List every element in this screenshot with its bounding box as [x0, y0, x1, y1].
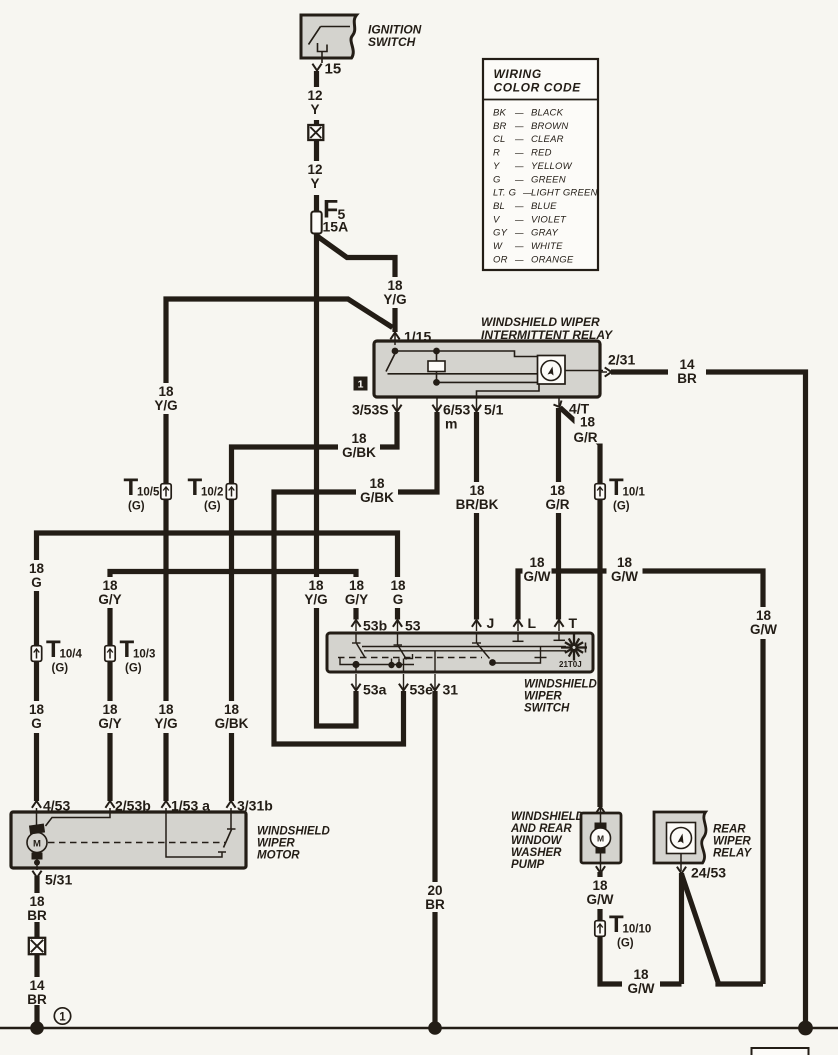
- switch internal T contact: [558, 634, 560, 640]
- wire washer pump to rear wiper relay 24/53 (18 G/W): [600, 872, 682, 984]
- svg-text:ORANGE: ORANGE: [531, 254, 574, 265]
- svg-text:18: 18: [351, 431, 367, 446]
- svg-text:18: 18: [102, 578, 118, 593]
- svg-text:BR: BR: [27, 992, 47, 1007]
- relay internal resistor: [436, 351, 438, 361]
- svg-text:OR: OR: [493, 254, 508, 265]
- wire switch 31 to ground bus (20 BR): [432, 691, 437, 1028]
- label 18 G on 4/53 run upper: [24, 560, 50, 591]
- svg-text:—: —: [514, 121, 524, 131]
- wire relay 6/53m to switch 53e (18 G/BK): [274, 412, 437, 744]
- svg-text:G/BK: G/BK: [342, 445, 376, 460]
- svg-text:10/5: 10/5: [137, 487, 160, 499]
- relay internal bus top: [395, 351, 538, 357]
- svg-text:10/2: 10/2: [201, 487, 223, 499]
- svg-text:T: T: [569, 615, 578, 631]
- svg-text:Y: Y: [310, 176, 319, 191]
- svg-text:AND REAR: AND REAR: [510, 823, 572, 835]
- svg-text:12: 12: [307, 88, 322, 103]
- switch terminal 31: [434, 674, 436, 689]
- label 18 G/BK on 3/53S run: [338, 430, 380, 461]
- label 20 BR on 31 wire: [422, 882, 448, 912]
- svg-text:BL: BL: [493, 201, 505, 212]
- wire ignition switch feed, fuse output vertical 12Y/18YG net: [317, 71, 357, 726]
- svg-text:Y/G: Y/G: [154, 398, 177, 413]
- motor internal 1/53a lead: [166, 808, 222, 857]
- label 12 Y lower: [304, 161, 326, 195]
- svg-text:18: 18: [469, 483, 485, 498]
- svg-text:WHITE: WHITE: [531, 241, 563, 252]
- svg-text:CLEAR: CLEAR: [531, 134, 564, 145]
- wire relay 4/T diagonal branch to T10/1 (18 G/R): [560, 408, 600, 445]
- svg-text:W: W: [493, 241, 503, 252]
- switch internal 53 contact: [397, 634, 399, 645]
- svg-text:4/T: 4/T: [569, 401, 590, 417]
- svg-text:1/15: 1/15: [404, 329, 431, 345]
- relay terminal 6/53 m: [436, 397, 438, 410]
- svg-text:WIPER: WIPER: [257, 838, 295, 850]
- switch internal bus 1: [362, 646, 566, 648]
- svg-text:G/Y: G/Y: [98, 716, 121, 731]
- svg-text:VIOLET: VIOLET: [531, 214, 567, 225]
- motor internal 3/31b contact: [230, 808, 232, 829]
- svg-text:(G): (G): [613, 501, 630, 513]
- motor terminal 2/53b: [105, 801, 114, 808]
- connector T10/2: [226, 484, 236, 500]
- svg-text:18: 18: [592, 878, 608, 893]
- switch washer contact star: [576, 646, 588, 648]
- svg-text:GREEN: GREEN: [531, 174, 566, 185]
- svg-text:Y/G: Y/G: [383, 292, 406, 307]
- svg-text:WINDOW: WINDOW: [511, 835, 563, 847]
- label 12 Y upper: [304, 87, 326, 120]
- relay terminal 4/T: [558, 397, 560, 406]
- rear wiper relay box: [654, 812, 706, 863]
- svg-text:M: M: [597, 834, 604, 844]
- svg-text:10/1: 10/1: [623, 487, 646, 499]
- svg-text:BR/BK: BR/BK: [456, 497, 499, 512]
- svg-text:M: M: [33, 839, 41, 850]
- svg-text:WINDSHIELD: WINDSHIELD: [257, 826, 330, 838]
- switch box windshield wiper switch: [327, 633, 593, 672]
- svg-text:18: 18: [29, 702, 45, 717]
- label 18 G/W right of T10/1: [607, 554, 643, 585]
- switch terminal 53b: [355, 621, 357, 631]
- rear relay terminal 24/53: [677, 867, 686, 874]
- svg-text:—: —: [514, 214, 524, 224]
- connector T10/1: [595, 484, 605, 500]
- svg-text:CL: CL: [493, 134, 506, 145]
- svg-text:WINDSHIELD WIPER: WINDSHIELD WIPER: [481, 315, 600, 329]
- motor terminal 4/53: [32, 801, 41, 808]
- wire T10/1 washer feed vertical to washer pump (18 G/W): [597, 442, 602, 807]
- label 18 G/W near switch L: [523, 554, 552, 585]
- svg-text:COLOR CODE: COLOR CODE: [494, 81, 582, 95]
- svg-text:PUMP: PUMP: [511, 859, 545, 871]
- svg-text:BR: BR: [425, 897, 445, 912]
- label 18 G/Y on 2/53b run upper: [94, 577, 126, 608]
- svg-text:18: 18: [756, 608, 772, 623]
- wire 24/53 diagonal to 18 G/W riser: [682, 874, 764, 984]
- switch internal bus 2: [364, 650, 566, 652]
- switch internal 53a lead: [355, 665, 357, 673]
- motor armature: [29, 824, 45, 835]
- svg-text:10/4: 10/4: [60, 649, 83, 661]
- svg-text:LT. G: LT. G: [493, 188, 516, 199]
- bottom right reference box: [752, 1048, 809, 1055]
- label 18 G on 53 drop: [385, 577, 411, 608]
- svg-text:5/1: 5/1: [484, 402, 504, 418]
- svg-text:18: 18: [102, 702, 118, 717]
- svg-text:G/W: G/W: [524, 569, 551, 584]
- svg-text:BLACK: BLACK: [531, 108, 564, 119]
- svg-text:12: 12: [307, 162, 322, 177]
- label 18 G/R on diagonal: [575, 414, 606, 444]
- svg-text:BK: BK: [493, 108, 507, 119]
- connector T10/5: [161, 484, 171, 500]
- svg-text:18: 18: [580, 414, 596, 429]
- switch internal lower bus right: [493, 647, 541, 664]
- connector T10/3: [105, 646, 115, 662]
- svg-text:REAR: REAR: [713, 824, 746, 836]
- svg-text:14: 14: [29, 978, 45, 993]
- washer pump terminal top: [596, 807, 605, 814]
- svg-text:—: —: [514, 174, 524, 184]
- relay internal 5/1 path: [477, 384, 540, 397]
- svg-text:(G): (G): [52, 663, 69, 675]
- svg-text:—: —: [514, 254, 524, 264]
- connector X in-line upper (12 Y): [308, 125, 323, 140]
- switch internal 53e lead: [403, 659, 405, 673]
- relay node resistor bottom: [433, 379, 440, 386]
- svg-text:53e: 53e: [410, 682, 434, 698]
- svg-text:LIGHT GREEN: LIGHT GREEN: [531, 188, 598, 199]
- svg-text:G/W: G/W: [611, 569, 638, 584]
- relay node resistor top: [433, 348, 440, 355]
- svg-text:2/53b: 2/53b: [115, 798, 151, 814]
- ground node center: [428, 1021, 442, 1035]
- svg-text:18: 18: [529, 555, 545, 570]
- washer pump motor: [600, 808, 602, 824]
- svg-text:2/31: 2/31: [608, 352, 635, 368]
- label 18 G/BK lower: [211, 701, 253, 733]
- svg-text:G: G: [31, 575, 42, 590]
- svg-text:18: 18: [29, 894, 45, 909]
- svg-text:18: 18: [617, 555, 633, 570]
- svg-text:10/10: 10/10: [623, 924, 652, 936]
- terminal 15 arrow: [312, 64, 321, 71]
- motor internal 5/31 lead: [36, 859, 38, 870]
- svg-text:YELLOW: YELLOW: [531, 161, 573, 172]
- ground node right: [798, 1021, 813, 1036]
- wire relay 5/1 to switch J (18 BR/BK): [474, 412, 479, 620]
- label 18 G/BK on 6/53m run: [356, 475, 398, 506]
- svg-text:GRAY: GRAY: [531, 228, 558, 239]
- svg-text:G: G: [31, 716, 42, 731]
- wire 18 Y/G branch to T10/5 and motor 1/53a: [166, 299, 393, 801]
- label 18 G/W bottom run: [622, 966, 660, 999]
- relay box windshield wiper intermittent relay: [374, 341, 600, 397]
- svg-text:WIRING: WIRING: [494, 67, 542, 81]
- svg-text:5/31: 5/31: [45, 872, 72, 888]
- label 18 Y/G lower: [150, 701, 182, 733]
- motor terminal 5/31: [32, 871, 41, 878]
- switch terminal T: [558, 621, 560, 631]
- svg-text:BROWN: BROWN: [531, 121, 568, 132]
- label 18 Y/G at relay 1/15: [379, 277, 411, 308]
- svg-text:18: 18: [349, 578, 365, 593]
- svg-text:WIPER: WIPER: [713, 836, 751, 848]
- switch terminal 53a: [355, 674, 357, 689]
- svg-text:—: —: [514, 228, 524, 238]
- svg-text:4/53: 4/53: [43, 798, 70, 814]
- relay terminal 3/53S: [396, 397, 398, 410]
- svg-text:18: 18: [158, 702, 174, 717]
- switch terminal 53: [397, 621, 399, 631]
- svg-text:18: 18: [224, 702, 240, 717]
- svg-text:18: 18: [550, 483, 566, 498]
- svg-text:J: J: [487, 615, 495, 631]
- label 14 BR on 2/31 wire: [668, 356, 706, 387]
- svg-text:G/R: G/R: [573, 430, 597, 445]
- svg-text:—: —: [514, 201, 524, 211]
- svg-text:WINDSHIELD: WINDSHIELD: [511, 811, 584, 823]
- fuse F5 15A: [311, 212, 321, 234]
- relay internal output lead: [565, 370, 603, 372]
- label 14 BR above ground: [24, 977, 50, 1005]
- svg-text:BLUE: BLUE: [531, 201, 557, 212]
- wire relay 4/T to switch T (18 G/R): [556, 408, 561, 620]
- svg-text:G: G: [393, 592, 404, 607]
- motor box windshield wiper motor: [11, 812, 246, 868]
- wire fuse F5 to relay terminal 1/15 (18 Y/G): [317, 236, 395, 332]
- svg-text:24/53: 24/53: [691, 865, 726, 881]
- svg-text:RED: RED: [531, 148, 552, 159]
- svg-text:Y: Y: [493, 161, 500, 172]
- switch internal 31 lead: [434, 651, 436, 672]
- connector X in-line lower (BR): [29, 938, 45, 954]
- svg-text:1: 1: [358, 379, 364, 391]
- svg-text:—: —: [514, 161, 524, 171]
- relay internal switch arm: [386, 353, 396, 372]
- svg-text:18: 18: [390, 578, 406, 593]
- wire 18 G/W bus from switch L to rear wiper relay branch: [518, 571, 763, 984]
- wire relay 3/53S to motor 3/31b (18 G/BK): [232, 412, 398, 801]
- svg-text:—: —: [514, 148, 524, 158]
- switch internal lower bus left: [340, 658, 414, 665]
- switch internal wiper dashed link: [338, 657, 482, 659]
- relay node 1/15: [392, 348, 399, 355]
- svg-text:53a: 53a: [363, 682, 387, 698]
- svg-text:21T0J: 21T0J: [559, 660, 582, 669]
- motor internal 4/53 lead: [36, 808, 38, 825]
- svg-text:G/Y: G/Y: [98, 592, 121, 607]
- svg-text:BR: BR: [27, 908, 47, 923]
- svg-text:18: 18: [29, 561, 45, 576]
- svg-text:G/Y: G/Y: [345, 592, 368, 607]
- svg-text:20: 20: [427, 883, 442, 898]
- svg-text:WIPER: WIPER: [524, 691, 562, 703]
- svg-text:Y: Y: [310, 102, 319, 117]
- svg-text:SWITCH: SWITCH: [524, 703, 570, 715]
- ignition switch contact: [321, 26, 351, 28]
- svg-text:18: 18: [387, 278, 403, 293]
- svg-text:18: 18: [369, 476, 385, 491]
- svg-text:R: R: [493, 148, 500, 159]
- svg-text:53b: 53b: [363, 618, 387, 634]
- label 18 Y/G on fuse run lower: [300, 577, 332, 608]
- svg-text:(G): (G): [125, 663, 142, 675]
- svg-text:G/W: G/W: [628, 981, 655, 996]
- svg-text:1: 1: [59, 1012, 66, 1024]
- svg-text:G/W: G/W: [750, 622, 777, 637]
- label 18 G/Y lower: [94, 701, 126, 733]
- switch internal 53b contact: [355, 634, 357, 643]
- svg-text:—: —: [514, 134, 524, 144]
- wire motor 5/31 to ground bus (18/14 BR): [34, 876, 39, 1028]
- svg-text:18: 18: [308, 578, 324, 593]
- motor internal park dashed link: [48, 842, 225, 844]
- svg-text:Y/G: Y/G: [154, 716, 177, 731]
- washer pump terminal bottom: [596, 866, 605, 873]
- svg-text:L: L: [528, 615, 537, 631]
- connector T10/4: [31, 646, 41, 662]
- svg-text:18: 18: [158, 384, 174, 399]
- relay terminal 5/1: [476, 397, 478, 410]
- ignition switch box: [301, 15, 357, 58]
- svg-text:MOTOR: MOTOR: [257, 850, 300, 862]
- label 18 G lower: [24, 701, 50, 733]
- label 18 BR/BK on 5/1 run: [453, 482, 501, 513]
- switch terminal 53e: [403, 674, 405, 689]
- switch internal L contact: [517, 634, 519, 641]
- svg-text:G: G: [493, 174, 501, 185]
- svg-text:SWITCH: SWITCH: [368, 35, 416, 49]
- wire motor 2/53b to switch 53b (18 G/Y): [110, 572, 356, 802]
- svg-text:—: —: [514, 241, 524, 251]
- svg-text:14: 14: [679, 357, 695, 372]
- svg-text:10/3: 10/3: [133, 649, 155, 661]
- svg-text:—: —: [514, 108, 524, 118]
- relay internal bus from resistor: [437, 381, 538, 383]
- switch node J arm: [489, 659, 496, 666]
- svg-text:1/53 a: 1/53 a: [171, 798, 210, 814]
- switch node 53a: [352, 661, 359, 668]
- svg-text:WINDSHIELD: WINDSHIELD: [524, 679, 597, 691]
- relay terminal 1/15: [394, 334, 396, 345]
- wire rear wiper relay 24/53 drop: [679, 873, 684, 984]
- svg-text:G/W: G/W: [587, 892, 614, 907]
- ground bus line: [0, 1027, 838, 1029]
- svg-text:(G): (G): [128, 501, 145, 513]
- label 18 Y/G on 1/53a run upper: [150, 383, 182, 414]
- motor terminal 3/31b: [226, 801, 235, 808]
- svg-text:WASHER: WASHER: [511, 847, 562, 859]
- label 18 G/Y on 53b drop: [341, 577, 373, 608]
- switch node 53e pair: [388, 662, 394, 668]
- svg-text:GY: GY: [493, 228, 508, 239]
- svg-text:G/BK: G/BK: [215, 716, 249, 731]
- label 18 BR below motor: [24, 893, 50, 922]
- switch internal J contact: [476, 634, 478, 643]
- wire relay 2/31 to ground bus (14 BR): [611, 372, 806, 1028]
- relay marker 1: [354, 377, 368, 391]
- svg-text:BR: BR: [677, 371, 697, 386]
- ground marker circled 1: [54, 1008, 70, 1024]
- label 18 G/W below pump: [582, 877, 618, 909]
- svg-text:3/31b: 3/31b: [237, 798, 273, 814]
- switch terminal L: [517, 621, 519, 631]
- svg-text:RELAY: RELAY: [713, 848, 752, 860]
- svg-text:Y/G: Y/G: [304, 592, 327, 607]
- svg-text:(G): (G): [204, 501, 221, 513]
- svg-text:18: 18: [633, 967, 649, 982]
- svg-text:G/BK: G/BK: [360, 490, 394, 505]
- label 18 G/W on riser: [746, 607, 782, 639]
- svg-text:m: m: [445, 416, 457, 432]
- svg-text:(G): (G): [617, 938, 634, 950]
- washer pump box: [581, 813, 621, 863]
- connector T10/10: [595, 921, 605, 937]
- svg-text:31: 31: [443, 682, 459, 698]
- svg-text:15: 15: [325, 61, 342, 78]
- svg-text:3/53S: 3/53S: [352, 402, 389, 418]
- relay terminal 2/31: [600, 371, 607, 373]
- rear wiper relay contact: [667, 823, 696, 854]
- wire motor 4/53 to switch 53 (18 G): [37, 533, 398, 801]
- relay internal lower bus: [388, 373, 538, 375]
- switch terminal J: [476, 621, 478, 631]
- wiring color code table: [483, 59, 598, 270]
- svg-text:53: 53: [405, 618, 421, 634]
- svg-text:G/R: G/R: [545, 497, 569, 512]
- relay internal motor box: [538, 356, 566, 385]
- svg-text:BR: BR: [493, 121, 507, 132]
- motor internal 2/53b lead: [46, 808, 111, 826]
- ground node left: [30, 1021, 44, 1035]
- svg-text:15A: 15A: [323, 219, 349, 235]
- label 18 G/R on 4/T run: [541, 482, 575, 513]
- motor terminal 1/53a: [161, 801, 170, 808]
